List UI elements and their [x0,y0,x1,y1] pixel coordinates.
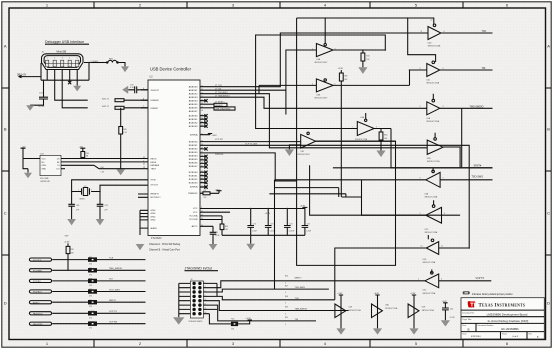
svg-text:ACBUS2: ACBUS2 [189,121,199,124]
net label SRST# [333,164,493,167]
svg-text:TDO-SWO: TDO-SWO [295,287,306,289]
svg-text:Channel A : JTAG SW Debug: Channel A : JTAG SW Debug [149,243,181,246]
svg-text:U4D: U4D [428,43,432,45]
svg-text:6 of 6: 6 of 6 [513,336,519,338]
connector J6 MiniUSB [42,51,84,70]
wire BDBUS0 VCP RX to U3D [200,141,301,143]
capacitor C74 [284,209,294,236]
svg-text:6: 6 [143,88,144,90]
net flag PC3/TDO row4 [29,290,88,294]
svg-text:SN74LVC2G07: SN74LVC2G07 [314,62,327,64]
svg-text:R35: R35 [71,249,74,251]
svg-text:Size:: Size: [462,325,467,327]
svg-text:VCCIOB: VCCIOB [189,219,198,221]
resistor R31 10K [358,50,370,74]
svg-text:470: 470 [89,264,92,266]
svg-text:TCK: TCK [295,298,300,300]
stub ADBUS4 [200,99,208,102]
svg-text:11: 11 [201,133,203,135]
svg-text:AGND: AGND [151,227,158,230]
svg-text:SN74LVC125A: SN74LVC125A [425,231,438,234]
svg-text:ADBUS2: ADBUS2 [189,93,199,96]
svg-text:35: 35 [201,159,203,161]
svg-text:29: 29 [201,118,203,120]
svg-text:30: 30 [201,121,203,123]
jtag net row4 TMS-SWDIO [217,301,349,316]
resistor R36 row1 [88,257,146,265]
svg-text:ORG: ORG [42,165,47,167]
buffer U5D receiver [335,235,469,300]
svg-text:VCC: VCC [193,212,198,214]
wire BDBUS1 VCP TX [200,145,469,248]
svg-text:VCP TX: VCP TX [109,311,117,313]
resistor R45 row5 [88,300,146,308]
IC U2 left pin stubs [141,90,148,108]
svg-text:SN74LVC125A: SN74LVC125A [428,45,441,48]
power flag +5V (EEPROM) [21,146,26,157]
svg-text:9: 9 [420,213,421,215]
svg-text:3V3OUT: 3V3OUT [151,90,160,92]
svg-text:Document Number:: Document Number: [478,324,495,327]
svg-text:ADBUS3: ADBUS3 [189,96,199,99]
svg-text:PWR EN: PWR EN [215,154,224,156]
svg-text:6: 6 [335,83,336,85]
svg-text:R44: R44 [101,167,104,169]
resistor R39 row3 [88,279,146,287]
buffer U3A [256,18,386,129]
svg-text:SN74LVC125A: SN74LVC125A [349,309,362,312]
svg-text:JT TDO/SWO: JT TDO/SWO [215,92,228,94]
jtag net row3 TCK [217,296,335,305]
note jumper default [463,291,514,296]
svg-text:JT TCK: JT TCK [215,85,223,87]
trunk vertical from top line [297,18,436,265]
svg-text:BDBUS1: BDBUS1 [189,145,199,147]
svg-text:2: 2 [420,106,421,108]
svg-text:32: 32 [201,166,203,168]
wire shell left [40,63,42,80]
svg-text:VCC: VCC [42,158,47,160]
svg-text:R30: R30 [86,153,89,155]
svg-text:5: 5 [77,58,78,60]
buffer U5B [420,133,461,168]
svg-text:BCBUS0: BCBUS0 [189,172,199,174]
svg-text:V3P: V3P [65,235,70,237]
svg-text:SRST#: SRST# [109,300,117,302]
svg-text:ADBUS4: ADBUS4 [189,100,199,103]
svg-text:3: 3 [376,126,377,128]
net flag PC0/TCK row1 [29,258,88,262]
svg-text:EESK: EESK [151,162,157,164]
svg-text:1: 1 [353,126,354,128]
wire pin3 USBDP [62,70,87,108]
svg-text:GND: GND [151,213,156,215]
wire pin1 VBUS [33,70,47,81]
svg-text:SN74LVC125A: SN74LVC125A [426,120,439,123]
svg-text:R31: R31 [366,55,369,57]
svg-text:VCCIOA: VCCIOA [189,215,198,218]
svg-text:1: 1 [78,190,79,192]
IC U11 93C46 EEPROM [40,153,61,182]
svg-text:ADBUS7: ADBUS7 [189,110,199,113]
svg-text:JT TMS/SWDIO: JT TMS/SWDIO [215,96,230,98]
svg-text:R46: R46 [285,276,288,278]
svg-text:36: 36 [201,155,203,157]
svg-text:VCP TX DB9: VCP TX DB9 [245,144,258,146]
svg-text:0.1UF: 0.1UF [215,235,220,237]
svg-text:AVCC: AVCC [192,225,198,228]
svg-text:0: 0 [285,292,286,294]
svg-text:PA4/U0CK: PA4/U0CK [33,313,43,316]
svg-text:GND: GND [151,216,156,218]
svg-text:4: 4 [420,68,421,70]
wire pin2 USBDM [55,70,88,101]
svg-text:VCP TX: VCP TX [476,277,485,280]
svg-text:BCBUS2: BCBUS2 [189,179,199,181]
svg-text:BDBUS5: BDBUS5 [189,159,199,161]
svg-text:JT TDI: JT TDI [215,89,222,91]
title block row drawing title [462,311,527,316]
svg-text:BDBUS4: BDBUS4 [189,155,199,157]
svg-text:0.01UF: 0.01UF [289,230,295,232]
svg-text:R43: R43 [123,129,126,131]
svg-text:TEST: TEST [151,169,157,171]
svg-text:C74: C74 [289,223,292,225]
svg-text:TDI: TDI [482,67,486,70]
net label USB JTAG/DBG boxed [200,107,235,111]
svg-text:Channel B : Virtual Com Port: Channel B : Virtual Com Port [149,249,180,252]
svg-text:VCP RX: VCP RX [215,139,223,141]
svg-text:470: 470 [89,296,92,298]
svg-text:R37: R37 [204,190,207,192]
resistor R42b row4 [88,289,146,297]
svg-text:0.01UF: 0.01UF [38,106,45,108]
resistor R38 row2 [88,268,146,276]
svg-text:4: 4 [69,58,70,60]
capacitor C72 [247,209,256,236]
IC U2 left pin names [151,90,162,230]
ground after FB2 [119,63,129,73]
svg-text:SN74LVC125A: SN74LVC125A [425,195,438,198]
svg-text:3: 3 [441,278,442,280]
svg-text:470: 470 [89,285,92,287]
net flag ARST# row5 [29,301,88,305]
wire mid vertical [269,85,346,197]
svg-text:10: 10 [205,299,207,301]
net flag DBG+5V [17,75,33,78]
svg-text:EEDATA: EEDATA [151,164,160,167]
svg-text:3: 3 [62,58,63,60]
svg-text:CAT93C46: CAT93C46 [40,180,51,183]
wires +5V to U11 [23,158,40,169]
svg-text:U5D: U5D [423,259,427,261]
resistor R41 27 [102,98,148,101]
bottom spare buffer U2D [408,293,434,334]
svg-text:Sheet: Sheet [502,333,507,336]
wires U11 to U2 (EECS EESK EEDATA TEST) [61,159,148,169]
buffer U5C receiver [310,165,461,234]
buffer U4D [421,20,493,48]
svg-text:B: B [468,327,470,331]
IC U2 right pin names [188,86,198,229]
svg-text:BDBUS2: BDBUS2 [189,148,199,150]
no-connect stubs BCBUS [200,171,208,189]
no-connect stubs BDBUS unused [200,147,208,188]
svg-text:BCBUS1: BCBUS1 [189,175,199,177]
svg-text:TCK: TCK [109,257,114,259]
svg-text:28: 28 [201,114,203,116]
svg-text:C: C [4,211,7,216]
svg-text:+3.3V: +3.3V [265,213,271,215]
svg-text:2: 2 [91,190,92,192]
resistor R44 [101,167,105,174]
svg-text:93LC46B: 93LC46B [40,178,49,180]
svg-text:TDO_SWO: TDO_SWO [109,289,120,291]
svg-text:MiniUSB: MiniUSB [57,51,67,54]
header J2 2x8 [189,279,204,323]
svg-text:PC2/TDI: PC2/TDI [33,281,41,283]
svg-text:SN74LVC125A: SN74LVC125A [385,307,398,310]
svg-text:8: 8 [143,99,144,101]
net flag PC2/TDI row3 [29,279,88,283]
svg-text:U4C: U4C [426,80,430,82]
wire shell right [84,63,91,81]
svg-text:C75: C75 [307,223,310,225]
power flag +3.3V with resistor R35 pullup (left rows) [64,242,74,271]
jtag net row2 TDO-SWO [217,285,329,294]
svg-text:Rev: Rev [529,334,532,336]
U2 GND bus and ground [136,210,148,250]
capacitor C60 [441,301,456,327]
capacitor C70 [122,84,148,93]
svg-text:SN74LVC2G07: SN74LVC2G07 [298,154,310,156]
wire BDBUS3 PWR EN [200,153,297,181]
resistor R43 1.5K [116,108,127,176]
title block row size doc [462,324,519,331]
svg-text:ACBUS3: ACBUS3 [189,125,199,128]
svg-text:0: 0 [285,282,286,284]
svg-text:16: 16 [205,312,207,314]
svg-text:6: 6 [446,145,447,147]
svg-text:5: 5 [420,145,421,147]
TI logo [468,301,476,307]
svg-text:SN74LVC125A: SN74LVC125A [423,261,436,264]
svg-text:SN74LVC125A: SN74LVC125A [355,138,368,141]
svg-text:+3.3V: +3.3V [215,189,221,191]
svg-text:BDBUS3: BDBUS3 [189,152,199,154]
svg-text:ADBUS1: ADBUS1 [189,89,199,92]
svg-text:BDBUS7: BDBUS7 [189,166,199,168]
svg-text:C49: C49 [104,205,107,207]
svg-text:SI/WUA: SI/WUA [190,133,198,136]
svg-text:R51: R51 [231,319,234,321]
capacitor C48 27P [67,192,80,226]
svg-text:1: 1 [312,48,313,50]
svg-text:B: B [547,127,550,132]
svg-text:Date:: Date: [462,333,467,336]
title block row date sheet rev [462,333,539,339]
svg-text:GND: GND [151,210,156,212]
svg-text:6: 6 [420,177,421,179]
svg-text:7: 7 [143,106,144,108]
wires crystal to U2 [72,180,148,192]
svg-text:11: 11 [441,246,443,248]
jtag net row5 TDI [217,305,316,326]
wire shell bus [41,79,89,81]
svg-text:PA0/U0RX: PA0/U0RX [33,323,43,326]
svg-text:BCBUS3: BCBUS3 [189,182,199,184]
svg-text:EK-LM3S9B96: EK-LM3S9B96 [501,327,519,331]
svg-text:4: 4 [312,83,313,85]
wire RESET# [138,194,148,197]
svg-text:SN74LVC125A: SN74LVC125A [422,309,435,312]
capacitor C49 27P [96,192,109,226]
svg-text:TMS-SWDIO: TMS-SWDIO [470,105,484,108]
net flag PC1/TMS row2 [29,269,88,273]
svg-text:VCP RX: VCP RX [109,322,118,324]
ferrite bead FB2 [91,59,119,64]
power flag +3.3V (U3 area) [338,68,344,73]
svg-text:38: 38 [201,148,203,150]
svg-text:12: 12 [205,304,207,306]
svg-text:12: 12 [421,246,423,248]
IC U2 FT2232D USB Device Controller [148,66,200,251]
resistor R30 1M [79,146,89,158]
svg-text:ADBUS6: ADBUS6 [189,107,199,110]
svg-text:PWREN#: PWREN# [188,193,198,195]
svg-text:GND: GND [42,169,47,171]
jumper resistor R51 on header row8 [209,314,252,331]
net label DBGEN boxed [200,103,227,107]
header right stubs [203,282,217,314]
svg-text:0.1UF: 0.1UF [306,230,311,232]
svg-text:RSTOUT#: RSTOUT# [151,197,162,199]
svg-text:TMS_SWDIO: TMS_SWDIO [109,268,123,270]
svg-text:ADBUS0: ADBUS0 [189,86,199,89]
svg-text:470: 470 [89,317,92,319]
svg-text:2X8 HDR SHRD: 2X8 HDR SHRD [189,321,204,323]
svg-text:SRST#: SRST# [295,278,303,280]
svg-text:11: 11 [421,31,423,33]
buffer U3B [259,70,410,100]
svg-text:1: 1 [47,58,48,60]
svg-text:45: 45 [143,164,145,166]
svg-text:42: 42 [201,218,203,220]
svg-text:B: B [4,127,7,132]
svg-text:C60: C60 [450,308,453,310]
svg-text:SN74LVC125A: SN74LVC125A [426,82,439,85]
svg-text:Debugger USB Interface: Debugger USB Interface [45,40,84,44]
wire ADBUS2 to U5B input [200,94,427,148]
buffer U4C [410,61,493,85]
svg-text:USBDM: USBDM [151,100,159,102]
svg-text:U3C: U3C [423,290,427,292]
svg-text:3: 3 [335,48,336,50]
resistor R42 27 [102,106,148,109]
svg-text:A: A [4,44,7,49]
resistor R37 PWREN pullup [200,189,222,199]
svg-text:SN74LVC2G07: SN74LVC2G07 [314,98,327,100]
svg-text:LM3S9B96 Development Board: LM3S9B96 Development Board [487,313,528,317]
svg-text:8: 8 [444,213,445,215]
svg-text:16: 16 [201,110,203,112]
svg-text:R41 27: R41 27 [102,98,110,100]
svg-text:10: 10 [431,20,433,22]
svg-text:BDBUS6: BDBUS6 [189,162,199,164]
header left stubs and ground bus [173,283,190,324]
svg-text:R50: R50 [285,317,288,319]
svg-text:A: A [547,44,550,49]
svg-text:XTOUT: XTOUT [151,184,159,186]
section title Debugger USB Interface [45,40,89,44]
svg-text:C79: C79 [215,232,218,234]
svg-text:2: 2 [54,58,55,60]
svg-text:R32: R32 [344,76,347,78]
svg-text:SI/WUB: SI/WUB [190,187,198,189]
bottom spare buffer U2B [335,293,361,334]
svg-text:TDI: TDI [109,279,113,281]
svg-text:U5C: U5C [425,229,429,231]
svg-text:TDI: TDI [295,319,299,321]
svg-text:0.1UF: 0.1UF [252,230,257,232]
svg-text:13: 13 [201,215,203,217]
title block row page title [462,318,528,323]
svg-text:+3.3V: +3.3V [64,242,70,244]
svg-text:470: 470 [89,274,92,276]
svg-text:VCC: VCC [193,208,198,210]
svg-text:In-circuit Debug Interface (IC: In-circuit Debug Interface (ICDI) [488,319,529,323]
wire ADBUS3 to U5A input [200,97,427,108]
svg-text:5: 5 [443,177,444,179]
svg-text:6: 6 [443,68,444,70]
svg-text:D: D [547,301,550,306]
svg-text:Drawing Title:: Drawing Title: [462,311,475,314]
svg-text:USBDP: USBDP [151,108,159,110]
net flag PA4/U0CK row6 [29,312,88,316]
svg-text:0: 0 [285,313,286,315]
power flag +3.3V SIWUA [200,134,217,137]
svg-text:TCK: TCK [482,30,487,33]
wire ADBUS1 to U3A input [200,50,317,115]
buffer U3C receiver [284,269,491,294]
svg-text:6MHz: 6MHz [80,198,85,200]
svg-text:R47: R47 [285,285,288,287]
svg-text:SRST#: SRST# [474,164,482,167]
svg-text:R49: R49 [285,307,288,309]
jtag net row1 SRST# [217,276,302,288]
svg-text:15: 15 [201,192,203,194]
svg-text:XTIN: XTIN [151,179,156,181]
svg-text:ACBUS0: ACBUS0 [189,114,199,117]
svg-text:470: 470 [89,306,92,308]
resistor R33 10K [376,129,388,158]
buffer U5A [420,94,493,168]
svg-text:SN74LVC125A: SN74LVC125A [423,292,436,295]
svg-text:33: 33 [201,162,203,164]
wire ADBUS0 TCK to U4D [200,33,428,87]
svg-text:+3.3V: +3.3V [212,135,218,137]
svg-text:8: 8 [444,31,445,33]
svg-text:26: 26 [201,211,203,213]
svg-text:31: 31 [201,125,203,127]
svg-text:C70: C70 [130,84,133,86]
svg-text:46: 46 [201,225,203,227]
svg-text:R40: R40 [225,226,228,228]
svg-text:D: D [4,301,7,306]
no-connect pin4 [68,70,71,85]
svg-text:2K2: 2K2 [225,229,228,231]
svg-text:2: 2 [297,139,298,141]
